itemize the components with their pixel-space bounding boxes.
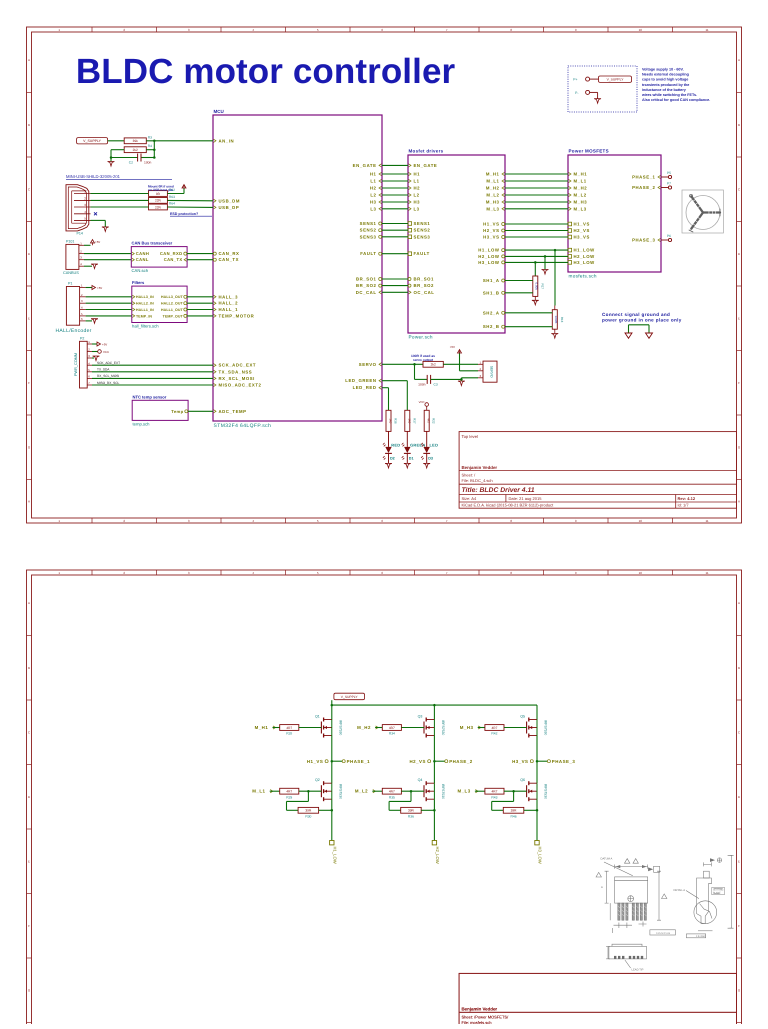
connector pins P5 P7 P6 (phase outputs): [661, 171, 672, 242]
svg-text:P7: P7: [667, 181, 671, 185]
wire SH1_B: [505, 292, 533, 294]
svg-text:Q2: Q2: [315, 778, 320, 782]
resistor R35 4R7: [382, 788, 401, 794]
svg-text:LED_GREEN: LED_GREEN: [345, 378, 376, 383]
svg-text:M_H2: M_H2: [574, 186, 588, 191]
svg-text:SH2_A: SH2_A: [483, 310, 500, 315]
wire M_L2 to R35: [372, 790, 382, 792]
svg-text:R42: R42: [491, 732, 497, 736]
ground (shunt R18): [551, 334, 558, 339]
wire SERVO to R11: [382, 363, 423, 366]
svg-text:FAULT: FAULT: [360, 251, 376, 256]
wires Mosfet drivers to Power MOSFETs: [505, 174, 568, 262]
svg-text:M_L3: M_L3: [457, 789, 470, 794]
wires CAN sheet to MCU: [187, 253, 213, 255]
svg-text:CAN_TX: CAN_TX: [164, 257, 183, 262]
svg-text:ADC_TEMP: ADC_TEMP: [219, 409, 247, 414]
sheet MCU (STM32F4 64LQFP.sch): [213, 109, 382, 429]
resistor R22: [424, 410, 429, 431]
connector P2 PWR_COMM: [74, 337, 92, 389]
svg-text:H1_VS: H1_VS: [483, 222, 499, 227]
svg-text:L2: L2: [414, 193, 420, 198]
power input note box with V_SUPPLY: [568, 66, 637, 112]
power label V_SUPPLY (page 2): [332, 693, 365, 705]
svg-text:VCC: VCC: [419, 400, 425, 404]
ground symbol right: [646, 333, 653, 338]
svg-text:FAULT: FAULT: [414, 251, 430, 256]
svg-text:STM32F4 64LQFP.sch: STM32F4 64LQFP.sch: [214, 423, 272, 429]
svg-text:0.005: 0.005: [535, 282, 539, 290]
svg-text:BR_SO2: BR_SO2: [414, 283, 435, 288]
svg-text:H3_VS: H3_VS: [512, 759, 528, 764]
resistor R30 39R: [298, 807, 319, 813]
svg-text:Benjamin Vedder: Benjamin Vedder: [462, 1007, 498, 1012]
svg-text:H1_LOW: H1_LOW: [574, 248, 596, 253]
svg-text:4R7: 4R7: [492, 790, 498, 794]
wires Filters to MCU: [187, 297, 213, 316]
wire drain Q2: [331, 761, 333, 783]
svg-text:CANL: CANL: [136, 257, 149, 262]
svg-text:H1_LOW: H1_LOW: [478, 248, 500, 253]
svg-text:M_H1: M_H1: [486, 172, 500, 177]
svg-text:PHASE_1: PHASE_1: [632, 175, 655, 180]
svg-text:M_H1: M_H1: [574, 172, 588, 177]
capacitor C3 100n: [415, 364, 463, 386]
svg-text:RX_SCL_MOSI: RX_SCL_MOSI: [97, 374, 119, 378]
ground (LED D2): [385, 463, 392, 468]
svg-text:LEAD TIP: LEAD TIP: [632, 969, 644, 972]
svg-text:temp.sch: temp.sch: [133, 422, 151, 427]
wire CANL: [84, 259, 131, 261]
svg-text:R35: R35: [389, 795, 395, 799]
global label H3_LOW: [535, 841, 543, 864]
svg-text:File: mosfets.sch: File: mosfets.sch: [462, 1020, 492, 1024]
resistor R29 4R7: [280, 788, 299, 794]
svg-text:SCK_ADC_EXT: SCK_ADC_EXT: [97, 361, 120, 365]
resistor R36 39R: [401, 807, 422, 813]
global label PHASE_1: [342, 759, 370, 764]
resistor R34 4R7: [382, 725, 401, 731]
svg-text:Benjamin Vedder: Benjamin Vedder: [462, 465, 498, 470]
svg-text:EN_GATE: EN_GATE: [353, 163, 377, 168]
global label H1_VS: [307, 759, 328, 764]
svg-text:Date: 21 aug 2015: Date: 21 aug 2015: [509, 496, 543, 501]
svg-text:10: 10: [639, 571, 643, 575]
svg-text:Power.sch: Power.sch: [409, 335, 433, 340]
svg-text:M_L3: M_L3: [486, 206, 499, 211]
resistor R37: [405, 410, 410, 431]
svg-text:Mosfet drivers: Mosfet drivers: [409, 149, 444, 154]
wire R29 to gate: [299, 790, 322, 793]
resistor R62 0R: [149, 191, 168, 197]
svg-text:M_L3: M_L3: [574, 206, 587, 211]
svg-text:BR_SO1: BR_SO1: [414, 277, 435, 282]
svg-text:D2: D2: [390, 457, 395, 461]
note: supply voltage text: [641, 68, 710, 103]
svg-text:EN_GATE: EN_GATE: [414, 163, 438, 168]
wire servo pin3 to ground: [461, 378, 478, 381]
title block page 1: [459, 432, 736, 509]
svg-text:SENS2: SENS2: [360, 228, 377, 233]
svg-text:H2_LOW: H2_LOW: [435, 847, 440, 864]
wire SH1_A: [505, 280, 533, 282]
wire source Q6 to H3_LOW: [536, 799, 538, 840]
wire R36 to source: [421, 809, 435, 812]
sheet Filters (hall_filters.sch): [132, 280, 187, 328]
svg-text:HALL2_OUT: HALL2_OUT: [161, 302, 184, 306]
global label PHASE_2: [445, 759, 473, 764]
svg-text:P-: P-: [575, 91, 578, 95]
svg-text:HALL3_OUT: HALL3_OUT: [161, 295, 184, 299]
svg-text:HALL2_IN: HALL2_IN: [136, 302, 154, 306]
wire gate pulldown path: [389, 791, 411, 810]
wire gate pulldown path: [492, 791, 514, 810]
LED D2 RED: [383, 431, 401, 463]
title block page 2: [459, 973, 736, 1029]
VCC flag (R22): [419, 400, 429, 410]
ground (CAN): [84, 264, 98, 269]
svg-text:H2_LOW: H2_LOW: [574, 254, 596, 259]
wire Temp to ADC_TEMP: [188, 410, 213, 412]
svg-text:TEMP_OUT: TEMP_OUT: [163, 314, 184, 318]
svg-text:4R7: 4R7: [389, 726, 395, 730]
svg-text:PHASE_1: PHASE_1: [347, 759, 371, 764]
wire phase node to PHASE_2: [434, 760, 444, 762]
svg-text:0.25 M C A B: 0.25 M C A B: [656, 932, 670, 935]
svg-text:+5V: +5V: [450, 345, 455, 349]
wire USB D+: [91, 206, 149, 208]
svg-text:H2: H2: [370, 186, 377, 191]
wire CANH: [84, 253, 131, 255]
svg-text:4R7: 4R7: [286, 726, 292, 730]
sheet Power MOSFETs (mosfets.sch): [568, 149, 661, 279]
svg-text:R34: R34: [389, 732, 395, 736]
svg-text:M_L1: M_L1: [486, 179, 499, 184]
svg-text:TEMP_IN: TEMP_IN: [136, 314, 152, 318]
wires P2 to MCU SPI: [92, 365, 213, 385]
svg-text:F: F: [738, 381, 740, 385]
title block page 2: [459, 973, 736, 1029]
svg-text:H2_VS: H2_VS: [483, 228, 499, 233]
svg-text:caps to avoid high voltage: caps to avoid high voltage: [642, 78, 688, 82]
wire H1_LOW branch: [554, 249, 557, 306]
svg-text:CAN_TX: CAN_TX: [219, 257, 240, 262]
resistor R11 2k2: [423, 361, 443, 367]
wire M_H3 to R42: [478, 727, 485, 729]
transistor Q3 IRFS7530: [418, 715, 445, 738]
svg-text:HALL_1: HALL_1: [219, 307, 239, 312]
svg-text:HALL1_OUT: HALL1_OUT: [161, 308, 184, 312]
svg-text:LED: LED: [430, 442, 439, 447]
capacitor C2 100n: [129, 154, 152, 165]
svg-text:L1: L1: [370, 179, 376, 184]
ground (servo): [458, 381, 465, 386]
wire SH2_A: [505, 312, 552, 314]
wire H2_LOW branch to ground: [544, 255, 547, 269]
transistor Q4 IRFS7530: [418, 778, 445, 801]
global label M_H2: [357, 725, 378, 730]
resistor R43 4R7: [485, 788, 504, 794]
wires MCU to Mosfet drivers: [382, 165, 408, 292]
svg-text:L2: L2: [370, 193, 376, 198]
global label M_H3: [460, 725, 481, 730]
svg-text:39k: 39k: [133, 139, 139, 143]
svg-text:PHASE_3: PHASE_3: [552, 759, 576, 764]
+5V flag (servo): [450, 345, 478, 371]
svg-text:H1_VS: H1_VS: [307, 759, 323, 764]
svg-text:1k0: 1k0: [407, 418, 411, 423]
svg-text:A: A: [738, 58, 740, 62]
svg-text:TEMP_MOTOR: TEMP_MOTOR: [219, 313, 255, 318]
ground tie wires: [629, 325, 650, 333]
global label PHASE_3: [547, 759, 575, 764]
global label H2_VS: [409, 759, 430, 764]
svg-text:Title: BLDC Driver 4.11: Title: BLDC Driver 4.11: [462, 487, 535, 494]
resistor R63 22R: [149, 198, 168, 204]
svg-text:R43: R43: [491, 795, 497, 799]
svg-text:E: E: [28, 316, 30, 320]
svg-text:M_H1: M_H1: [255, 725, 269, 730]
svg-text:HALL_3: HALL_3: [219, 294, 239, 299]
ground (LED D3): [423, 463, 430, 468]
wire drain Q4: [433, 761, 435, 783]
svg-text:H3: H3: [370, 200, 377, 205]
ground (H2_LOW): [542, 270, 549, 275]
svg-text:R38: R38: [394, 418, 398, 424]
sheet NTC temp sensor (temp.sch): [132, 394, 188, 426]
svg-text:F: F: [28, 924, 30, 928]
svg-text:RED: RED: [391, 442, 400, 447]
svg-text:2k2: 2k2: [431, 363, 436, 367]
+5V flag (CAN): [84, 240, 100, 246]
svg-text:R18: R18: [560, 317, 564, 323]
package drawing D2PAK front view: [596, 859, 675, 935]
wires hall sensors to Filters: [86, 297, 132, 316]
ground (HALL): [86, 319, 98, 324]
svg-text:SH1_B: SH1_B: [483, 290, 500, 295]
svg-text:+5V: +5V: [95, 240, 100, 244]
svg-text:R64: R64: [169, 202, 175, 206]
svg-text:R37: R37: [412, 418, 416, 424]
svg-text:DETAIL A: DETAIL A: [674, 889, 686, 892]
svg-text:CANH: CANH: [136, 251, 149, 256]
svg-text:BR_SO2: BR_SO2: [356, 283, 377, 288]
svg-text:SENS1: SENS1: [414, 221, 431, 226]
+5V flag (P2): [92, 342, 107, 346]
connector P101 CANBUS: [63, 240, 84, 275]
svg-text:A: A: [601, 886, 603, 889]
wire USB D-: [91, 199, 149, 201]
svg-text:M_L2: M_L2: [355, 789, 368, 794]
svg-text:H: H: [738, 499, 740, 503]
svg-text:4R7: 4R7: [492, 726, 498, 730]
svg-text:Q4: Q4: [418, 778, 423, 782]
wire source Q3 to phase node: [433, 736, 436, 763]
svg-text:F: F: [738, 924, 740, 928]
ground (P2): [92, 356, 99, 361]
svg-text:CAN_RXD: CAN_RXD: [160, 251, 183, 256]
wire gate pulldown path: [287, 791, 309, 810]
ground symbol left: [625, 333, 632, 338]
svg-text:R3: R3: [148, 135, 152, 139]
wire drain Q1: [331, 705, 333, 719]
svg-text:Sheet: /: Sheet: /: [462, 473, 477, 478]
svg-text:H3_LOW: H3_LOW: [538, 847, 543, 864]
wire R11 to servo connector: [443, 363, 478, 365]
svg-text:SENS2: SENS2: [414, 228, 431, 233]
svg-text:H2_VS: H2_VS: [409, 759, 425, 764]
wire USB pin5 to ground: [91, 220, 106, 227]
svg-text:HALL3_IN: HALL3_IN: [136, 295, 154, 299]
svg-text:Also critical for good CAN com: Also critical for good CAN compliance.: [642, 98, 710, 102]
svg-text:hall_filters.sch: hall_filters.sch: [132, 323, 159, 328]
svg-text:File: BLDC_4.sch: File: BLDC_4.sch: [462, 478, 493, 483]
svg-text:power ground in one place only: power ground in one place only: [602, 318, 682, 323]
svg-text:4R7: 4R7: [286, 790, 292, 794]
wire M_L3 to R43: [475, 790, 485, 792]
wire source Q4 to H2_LOW: [433, 799, 435, 840]
svg-text:PHASE_2: PHASE_2: [632, 185, 655, 190]
wire R28 to gate: [299, 727, 322, 729]
svg-text:P5: P5: [667, 171, 671, 175]
svg-text:+5V: +5V: [97, 286, 102, 290]
svg-text:R30: R30: [305, 815, 311, 819]
LED D3 LED: [421, 431, 438, 463]
svg-text:LED_RED: LED_RED: [353, 385, 377, 390]
svg-text:V_SUPPLY: V_SUPPLY: [83, 139, 101, 143]
wire M_H2 to R34: [375, 727, 382, 729]
svg-text:DC_CAL: DC_CAL: [356, 290, 377, 295]
wire SH2_B: [505, 326, 552, 328]
wire divider node to AN_IN: [110, 140, 213, 162]
svg-text:P6: P6: [667, 234, 671, 238]
svg-text:AN_IN: AN_IN: [219, 138, 235, 143]
svg-text:H3_VS: H3_VS: [574, 235, 590, 240]
svg-text:P2: P2: [80, 337, 84, 341]
svg-text:Q1: Q1: [315, 715, 320, 719]
svg-text:39R: 39R: [305, 809, 312, 813]
svg-text:Id: 1/7: Id: 1/7: [678, 503, 690, 508]
svg-text:P1: P1: [68, 282, 72, 286]
svg-text:Sheet: /Power MOSFETS/: Sheet: /Power MOSFETS/: [462, 1014, 510, 1019]
svg-text:IRFS7530: IRFS7530: [338, 784, 342, 799]
svg-text:SENS1: SENS1: [360, 221, 377, 226]
svg-text:H3_LOW: H3_LOW: [574, 260, 596, 265]
svg-text:C2: C2: [129, 161, 133, 165]
connector P4 SERVO: [478, 361, 497, 383]
svg-text:10: 10: [639, 28, 643, 32]
svg-text:H2_VS: H2_VS: [574, 228, 590, 233]
global label M_L1: [252, 789, 272, 794]
svg-text:Connect signal ground and: Connect signal ground and: [602, 312, 670, 317]
wire drain Q5: [536, 705, 538, 719]
resistor R38: [386, 410, 391, 431]
wire R46 to source: [524, 809, 538, 812]
resistor R46 39R: [503, 807, 524, 813]
svg-text:Power MOSFETS: Power MOSFETS: [569, 149, 609, 154]
svg-text:100n: 100n: [144, 161, 152, 165]
svg-text:R46: R46: [511, 815, 517, 819]
svg-text:L3: L3: [370, 206, 376, 211]
transistor Q5 IRFS7530: [520, 715, 547, 738]
wire USB pin1 to R62: [91, 193, 149, 195]
svg-text:MISO_RX_SCL: MISO_RX_SCL: [97, 381, 120, 385]
svg-text:A: A: [28, 58, 30, 62]
svg-text:Top level: Top level: [462, 434, 479, 439]
svg-text:SENS3: SENS3: [360, 234, 377, 239]
svg-text:L3: L3: [414, 206, 420, 211]
net labels on P2 wires: [97, 361, 120, 385]
sheet CAN Bus transceiver (CAN.sch): [131, 241, 187, 273]
svg-text:Rev: 4.12: Rev: 4.12: [678, 496, 696, 501]
svg-text:IRFS7530: IRFS7530: [544, 784, 548, 799]
svg-text:10: 10: [639, 519, 643, 523]
svg-text:0.005: 0.005: [554, 316, 558, 324]
svg-text:wires while switching the FETs: wires while switching the FETs.: [641, 93, 697, 97]
no-connect X on pin 4: [94, 212, 97, 215]
resistor R3 39k: [124, 138, 146, 144]
wire M_L1 to R29: [270, 790, 280, 792]
svg-text:inductance of the battery: inductance of the battery: [642, 88, 687, 92]
+5V flag (HALL): [86, 286, 103, 291]
svg-text:H3_LOW: H3_LOW: [478, 260, 500, 265]
svg-text:MISO_ADC_EXT2: MISO_ADC_EXT2: [219, 383, 262, 388]
wire R62 to 3V3: [167, 188, 184, 194]
wire supply rail: [331, 704, 537, 707]
svg-text:E: E: [28, 859, 30, 863]
svg-text:H2: H2: [414, 186, 421, 191]
svg-text:V_SUPPLY: V_SUPPLY: [607, 78, 625, 82]
wire R35 to gate: [401, 790, 424, 793]
svg-text:Needs external decoupling: Needs external decoupling: [642, 73, 689, 77]
svg-text:TX_SDA: TX_SDA: [97, 368, 110, 372]
svg-text:M_H2: M_H2: [486, 186, 500, 191]
svg-text:OC_CAL: OC_CAL: [414, 290, 435, 295]
svg-text:Size: A4: Size: A4: [462, 496, 477, 501]
shunt resistor R18: [552, 306, 564, 334]
svg-text:R36: R36: [408, 815, 414, 819]
motor M (3-phase windings graphic): [682, 190, 723, 233]
wire phase node to PHASE_1: [332, 760, 342, 762]
wire drain Q3: [433, 705, 435, 719]
svg-text:ESD protection?: ESD protection?: [170, 212, 198, 216]
svg-text:Voltage supply 10 - 60V.: Voltage supply 10 - 60V.: [642, 68, 684, 72]
svg-text:H1_VS: H1_VS: [574, 222, 590, 227]
svg-text:HALL_2: HALL_2: [219, 301, 239, 306]
svg-text:E: E: [738, 859, 740, 863]
svg-text:11: 11: [705, 571, 708, 575]
wire phase node to PHASE_3: [537, 760, 547, 762]
svg-text:22R: 22R: [155, 205, 162, 209]
svg-text:DATUM A: DATUM A: [601, 858, 613, 861]
ground (USB): [102, 227, 109, 232]
svg-text:IRFS7530: IRFS7530: [338, 720, 342, 735]
svg-text:L1: L1: [414, 179, 420, 184]
svg-text:on USB host pin: on USB host pin: [148, 188, 173, 192]
svg-text:M_H2: M_H2: [357, 725, 371, 730]
resistor R4 2k2: [124, 147, 146, 153]
svg-text:P101: P101: [66, 240, 74, 244]
wire R34 to gate: [401, 727, 424, 729]
svg-text:CAN_RX: CAN_RX: [219, 251, 240, 256]
power label V_SUPPLY: [77, 138, 108, 144]
wire R42 to gate: [504, 727, 527, 729]
svg-text:39R: 39R: [511, 809, 518, 813]
svg-text:V_SUPPLY: V_SUPPLY: [341, 695, 359, 699]
transistor Q1 IRFS7530: [315, 715, 342, 738]
svg-text:B: B: [28, 666, 30, 670]
svg-text:P14: P14: [77, 231, 83, 235]
